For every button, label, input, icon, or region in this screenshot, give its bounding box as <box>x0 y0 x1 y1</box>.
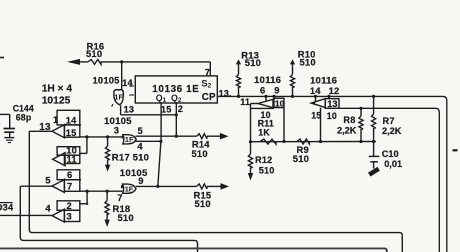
border line bottom (big box edge) <box>0 248 387 252</box>
svg-text:3: 3 <box>67 212 72 222</box>
resistor R9 510 zigzag <box>297 139 310 144</box>
wire 1F#1 output pin 13 down then right (W1) <box>120 105 122 114</box>
line receiver U10125a triangle <box>52 125 64 138</box>
svg-text:1K: 1K <box>258 128 270 138</box>
svg-text:510: 510 <box>300 57 316 68</box>
resistor R18 510 to VEE arrow <box>106 191 108 200</box>
line receiver U10116a triangle (points left) <box>258 99 273 107</box>
wire stub pin12 <box>328 96 330 98</box>
wire stub pin6 to gate <box>265 96 267 101</box>
node junction R16 wire / gate 1F pin14 <box>120 60 123 63</box>
svg-text:510: 510 <box>118 212 134 223</box>
wire receiver D out up to net N2 <box>80 203 87 205</box>
bottom net wire (R11/R9 row) <box>251 141 377 143</box>
node N2/R18 junction <box>106 190 109 193</box>
svg-text:14: 14 <box>310 85 321 96</box>
pin box 10 of U10116a <box>274 98 284 107</box>
node C10 junction <box>372 140 375 143</box>
svg-text:10125: 10125 <box>42 95 71 106</box>
svg-text:10105: 10105 <box>120 168 148 179</box>
svg-text:510: 510 <box>259 166 275 176</box>
node R8 bottom junction <box>359 140 362 143</box>
wire stub pin9 to box10 <box>273 96 275 98</box>
svg-text:1F: 1F <box>114 93 123 102</box>
resistor R16 510, output arrow to the left <box>67 59 80 65</box>
node receiver C divider dots <box>63 179 65 181</box>
resistor R11 1K zigzag <box>260 139 276 144</box>
node N1/receiver B junction <box>85 135 88 138</box>
svg-text:7: 7 <box>67 182 72 192</box>
svg-text:7: 7 <box>117 192 122 203</box>
svg-text:4: 4 <box>45 203 51 214</box>
wire CP pin13 rail to the right <box>217 96 446 252</box>
wire pin13 output to right edge <box>339 108 439 252</box>
or-gate 1F U10105a (vertical) <box>114 90 123 105</box>
resistor R17 510 to VEE arrow <box>107 137 109 146</box>
line receiver U10125b triangle <box>53 153 66 166</box>
wire receiver C input down left (to bottom wire 2) <box>20 186 197 252</box>
node rail stub 14 <box>314 95 317 98</box>
wire pin 14 drop to OR gate 1F (10105) <box>121 62 123 90</box>
capacitor C10 0,01 <box>373 142 375 157</box>
svg-text:68p: 68p <box>16 112 32 122</box>
pin box 13 of U10116b <box>325 99 339 109</box>
svg-text:14: 14 <box>66 116 77 126</box>
svg-text:7: 7 <box>205 66 210 77</box>
node V5/R15 wire junction <box>156 185 159 188</box>
svg-text:CP: CP <box>202 92 216 103</box>
resistor R12 510 to VEE arrow <box>250 142 252 154</box>
resistor R7 2,2K <box>373 96 375 114</box>
pin 7 stub into top of 10136 <box>209 62 211 76</box>
svg-text:6: 6 <box>260 85 265 96</box>
ground below C144 <box>4 137 14 139</box>
wire D34 to receiver D input <box>0 214 53 216</box>
line receiver U10116b triangle (points left) <box>311 99 325 108</box>
svg-text:10105: 10105 <box>93 75 120 86</box>
svg-text:1H × 4: 1H × 4 <box>42 84 73 95</box>
svg-text:11: 11 <box>67 154 77 164</box>
svg-text:15: 15 <box>161 104 172 114</box>
svg-text:2,2K: 2,2K <box>382 126 402 136</box>
node pin2/W3 junction <box>175 135 178 138</box>
svg-text:510: 510 <box>86 48 102 59</box>
wire 1F#2 pin4 output <box>135 140 161 142</box>
small dash artifact left edge <box>0 57 4 59</box>
resistor R14 510 with right arrow <box>197 134 207 139</box>
wire U10116b lower pin down to bottom net <box>320 108 322 142</box>
resistor R13 510 to VCC arrow <box>236 59 241 64</box>
line receiver U10125d triangle <box>52 209 64 222</box>
receiver A output box pins 14/15 <box>57 110 80 125</box>
svg-text:2,2K: 2,2K <box>337 126 357 136</box>
resistor R15 510 with right arrow <box>197 184 207 189</box>
node N2/receiver D junction <box>86 190 89 193</box>
capacitor C144 68p <box>0 113 10 115</box>
svg-text:3: 3 <box>114 124 119 135</box>
wire net N2 <box>80 190 123 192</box>
right edge text artifact <box>453 149 458 151</box>
wire receiver B out to net N1 <box>80 152 87 154</box>
node R8 top junction <box>359 107 362 110</box>
node W1/pin2 junction <box>175 113 178 116</box>
or-gate 1F U10105b (pins 3,5,4) <box>123 135 136 144</box>
node box corner dots receiver A <box>64 124 66 126</box>
svg-text:510: 510 <box>293 153 309 164</box>
pin 15 wire of 10136 down <box>160 103 162 141</box>
wire V5 pin15+pin4 net down to R15 net <box>158 141 161 186</box>
wire 1F#3 pin9 output to R15 <box>136 185 197 187</box>
wire 1F#2 pin5 output to R14 <box>136 135 197 137</box>
svg-text:2: 2 <box>178 104 183 114</box>
svg-text:5: 5 <box>138 125 143 136</box>
svg-text:6: 6 <box>67 170 72 180</box>
svg-text:13: 13 <box>124 104 135 114</box>
wire net N1 <box>80 136 123 138</box>
svg-text:R12: R12 <box>255 155 272 165</box>
svg-text:13: 13 <box>327 99 337 109</box>
node rail stub 9 <box>272 95 275 98</box>
resistor R8 2,2K <box>360 108 362 116</box>
svg-text:0,01: 0,01 <box>384 159 402 169</box>
svg-text:510: 510 <box>192 148 208 159</box>
node bottom wire/box right <box>282 140 285 143</box>
line receiver U10125c triangle <box>52 180 64 193</box>
wire from R16 to pin 7 of U 10136 <box>101 61 211 63</box>
node R10/rail junction <box>291 95 294 98</box>
svg-text:1: 1 <box>53 115 58 125</box>
resistor R10 510 to VCC arrow <box>290 59 295 64</box>
node bottom wire start <box>249 140 252 143</box>
or-gate 1F U10105c (pins 7,9) <box>123 184 136 193</box>
wire receiver A input down left (to bottom wire) <box>29 131 402 252</box>
signal tag D34 with overline <box>0 202 13 204</box>
node rail stub 6 <box>264 95 267 98</box>
receiver D output box pins 2/3 <box>57 201 80 211</box>
svg-text:R17 510: R17 510 <box>112 153 149 164</box>
svg-text:12: 12 <box>329 85 340 96</box>
feedback loop box R11 1K <box>250 104 252 142</box>
svg-text:510: 510 <box>245 57 261 68</box>
svg-text:1F: 1F <box>125 135 134 144</box>
svg-text:1F: 1F <box>125 184 134 193</box>
pin 2 wire of 10136 down <box>175 103 177 136</box>
wire receiver A input from left rail <box>29 130 52 132</box>
node R13/rail junction <box>237 95 240 98</box>
receiver B output box pins 10/11 <box>57 147 80 156</box>
svg-text:11: 11 <box>240 97 250 107</box>
receiver C output box pins 6/7 <box>57 170 80 180</box>
svg-text:10: 10 <box>275 98 285 108</box>
svg-text:R8: R8 <box>343 115 355 125</box>
svg-text:2: 2 <box>67 201 72 211</box>
node pin4/pin15/V5 junction <box>159 140 162 143</box>
wire receiver C input <box>20 185 52 187</box>
svg-text:R7: R7 <box>383 116 395 126</box>
node rail stub 12 <box>327 95 330 98</box>
svg-text:5: 5 <box>45 176 51 187</box>
svg-text:9: 9 <box>274 85 279 96</box>
node gate2/bottom wire <box>319 140 322 143</box>
wire stub pin14 <box>315 96 317 101</box>
IC U 10136 1E box <box>135 76 217 103</box>
svg-text:9: 9 <box>138 175 143 186</box>
svg-text:510: 510 <box>195 198 211 209</box>
svg-text:C10: C10 <box>382 149 399 159</box>
dashed continuation marks left of 10136 box <box>129 85 134 87</box>
svg-text:10: 10 <box>327 111 337 121</box>
svg-text:D34: D34 <box>0 203 14 213</box>
ground mark below C10 <box>368 167 380 177</box>
svg-text:15: 15 <box>66 128 77 138</box>
node R7 top junction (rail) <box>372 95 375 98</box>
node N1/R17 junction <box>106 135 109 138</box>
